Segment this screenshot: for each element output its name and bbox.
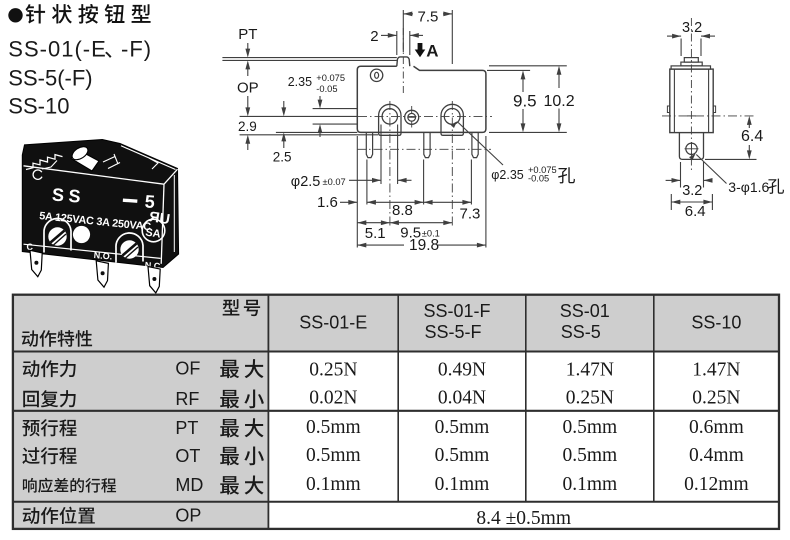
svg-text:A: A (426, 42, 438, 61)
svg-text:7.3: 7.3 (460, 206, 481, 223)
svg-text:OF: OF (175, 359, 200, 379)
svg-text:0.4mm: 0.4mm (689, 445, 744, 466)
svg-text:8.8: 8.8 (392, 202, 413, 219)
svg-text:1.6: 1.6 (317, 194, 338, 211)
svg-text:8.4 ±0.5mm: 8.4 ±0.5mm (476, 508, 571, 529)
svg-text:0.02N: 0.02N (309, 387, 357, 408)
svg-text:0.1mm: 0.1mm (562, 474, 617, 495)
svg-text:SS-01(-E: SS-01(-E (8, 37, 106, 62)
svg-text:0.25N: 0.25N (566, 387, 614, 408)
svg-text:0.49N: 0.49N (438, 359, 486, 380)
svg-text:0.5mm: 0.5mm (562, 445, 617, 466)
svg-text:0.1mm: 0.1mm (306, 474, 361, 495)
svg-text:0.1mm: 0.1mm (435, 474, 490, 495)
svg-text:SS-01: SS-01 (560, 301, 610, 321)
svg-text:PT: PT (238, 26, 257, 43)
svg-text:SS: SS (51, 185, 85, 207)
svg-text:RF: RF (175, 389, 199, 409)
svg-text:0.25N: 0.25N (309, 359, 357, 380)
svg-text:3.2: 3.2 (682, 183, 702, 199)
svg-text:0.5mm: 0.5mm (306, 445, 361, 466)
svg-text:9.5: 9.5 (513, 92, 537, 111)
svg-text:7.5: 7.5 (418, 8, 439, 25)
svg-text:2: 2 (370, 28, 378, 45)
svg-text:0.6mm: 0.6mm (689, 417, 744, 438)
svg-text:0.5mm: 0.5mm (435, 417, 490, 438)
svg-text:10.2: 10.2 (544, 93, 575, 110)
svg-text:-F): -F) (121, 37, 152, 62)
svg-text:0.5mm: 0.5mm (562, 417, 617, 438)
svg-text:3-φ1.6: 3-φ1.6 (728, 179, 769, 195)
svg-text:0.12mm: 0.12mm (684, 474, 748, 495)
svg-text:6.4: 6.4 (741, 128, 763, 145)
svg-text:PT: PT (175, 418, 198, 438)
svg-text:MD: MD (175, 475, 203, 495)
svg-text:+0.075: +0.075 (316, 73, 345, 83)
svg-text:SS-5: SS-5 (561, 322, 601, 342)
svg-text:±0.07: ±0.07 (323, 177, 346, 187)
svg-text:6.4: 6.4 (685, 203, 706, 220)
svg-text:OP: OP (237, 80, 259, 97)
svg-text:3.2: 3.2 (682, 20, 702, 36)
svg-text:N.O.: N.O. (93, 250, 112, 262)
svg-text:SS-10: SS-10 (691, 312, 741, 332)
svg-text:2.5: 2.5 (273, 150, 292, 165)
svg-text:2.9: 2.9 (238, 119, 257, 134)
svg-text:φ2.35: φ2.35 (491, 168, 523, 182)
svg-text:1.47N: 1.47N (566, 359, 614, 380)
svg-text:SS-10: SS-10 (8, 94, 69, 119)
svg-text:19.8: 19.8 (409, 237, 439, 254)
svg-text:2.35: 2.35 (288, 75, 312, 89)
svg-text:0.5mm: 0.5mm (306, 417, 361, 438)
svg-text:5.1: 5.1 (365, 225, 386, 242)
svg-text:-0.05: -0.05 (316, 84, 337, 94)
svg-text:φ2.5: φ2.5 (291, 174, 321, 190)
svg-text:0.25N: 0.25N (692, 387, 740, 408)
svg-text:0.04N: 0.04N (438, 387, 486, 408)
svg-text:SS-01-E: SS-01-E (299, 312, 367, 332)
svg-text:SS-5-F: SS-5-F (424, 322, 481, 342)
svg-text:0.5mm: 0.5mm (435, 445, 490, 466)
svg-text:-0.05: -0.05 (528, 174, 549, 184)
svg-text:SS-5(-F): SS-5(-F) (8, 65, 92, 90)
svg-text:OT: OT (175, 446, 200, 466)
svg-text:1.47N: 1.47N (692, 359, 740, 380)
svg-text:OP: OP (175, 506, 201, 526)
svg-text:SS-01-F: SS-01-F (423, 301, 490, 321)
svg-text:SA: SA (145, 227, 162, 241)
